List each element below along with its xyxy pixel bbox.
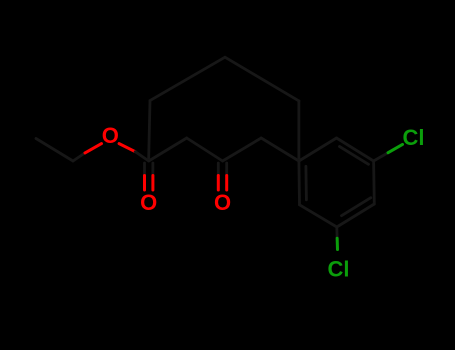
wire: bond C2-CH2b	[223, 138, 262, 161]
wire: ring bond Ar4-Ar5 inner aromatic line	[342, 198, 371, 216]
wire: bond Ar3-Cl top, green half near Cl	[388, 144, 402, 152]
svg-text:Cl: Cl	[328, 256, 350, 281]
wire: faint ghost right leg of top chevron	[225, 57, 299, 101]
wire: C2=O double bond line b red lower half	[225, 176, 228, 191]
wire: ring bond Ar3-Ar4	[372, 161, 375, 204]
wire: bond C1-CH2a	[149, 138, 187, 161]
wire: bond CH2b-Ar1	[261, 138, 299, 161]
wire: bond Ar5-Cl bottom, dark half	[335, 227, 338, 238]
svg-text:O: O	[140, 190, 157, 215]
wire: bond CH2-O ester, dark half	[73, 153, 85, 161]
wire: C1=O double bond line b red lower half	[151, 176, 154, 191]
wire: bond Ar5-Cl bottom, green half near Cl	[336, 238, 339, 249]
wire: bond CH3-CH2 (ethyl)	[36, 139, 73, 162]
wire: faint ghost left vertical	[149, 101, 150, 158]
wire: bond Ar3-Cl top, dark half	[374, 153, 388, 161]
wire: bond O-C1 ester, dark half	[135, 152, 148, 161]
wire: ring bond Ar6-Ar1 inner aromatic line	[304, 166, 307, 200]
wire: faint ghost right vertical	[297, 101, 300, 158]
wire: C2=O double bond line a dark upper half	[217, 163, 220, 176]
svg-text:Cl: Cl	[403, 125, 425, 150]
wire: bond CH2a-C2	[187, 138, 223, 161]
wire: C1=O double bond line b dark upper half	[151, 163, 154, 176]
wire: bond CH2-O ester, red half near O	[85, 144, 102, 153]
wire: ring bond Ar4-Ar5	[337, 204, 375, 227]
wire: C1=O double bond line a red lower half	[143, 176, 146, 191]
wire: ring bond Ar2-Ar3 inner aromatic line	[340, 147, 369, 165]
wire: C2=O double bond line a red lower half	[217, 176, 220, 191]
wire: bond O-C1 ester, red half near O	[119, 144, 135, 152]
wire: ring bond Ar5-Ar6	[300, 205, 337, 227]
svg-text:O: O	[102, 123, 119, 148]
wire: ring bond Ar2-Ar3	[337, 138, 374, 161]
wire: faint ghost left leg of top chevron	[150, 57, 225, 100]
wire: ring bond Ar1-Ar2	[299, 138, 337, 161]
wire: C2=O double bond line b dark upper half	[225, 163, 228, 176]
svg-text:O: O	[214, 190, 231, 215]
wire: ring bond Ar6-Ar1	[297, 161, 300, 205]
wire: C1=O double bond line a dark upper half	[143, 163, 146, 176]
